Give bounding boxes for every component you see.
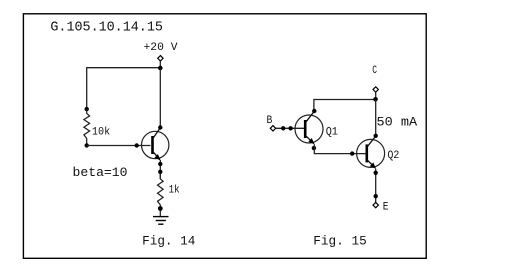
resistor R 10k: [84, 109, 90, 145]
svg-text:C: C: [372, 65, 377, 77]
node Q1 collector pin: [312, 109, 316, 113]
terminal C: [373, 87, 378, 92]
svg-text:Q2: Q2: [388, 150, 400, 162]
terminal B: [270, 126, 275, 131]
ground: [153, 217, 169, 225]
svg-text:Q1: Q1: [326, 127, 338, 139]
wire emitter Fig14: [159, 160, 161, 179]
wire collector vertical Fig14: [159, 68, 161, 128]
node Q1 base pin: [288, 126, 292, 130]
node +20V junction: [158, 66, 163, 71]
node Q2 collector pin: [374, 134, 378, 138]
svg-text:+20 V: +20 V: [144, 42, 179, 54]
border frame: [23, 14, 426, 258]
svg-text:1k: 1k: [169, 184, 180, 196]
node 10k bottom: [85, 143, 89, 147]
wire terminal stub: [159, 61, 161, 68]
svg-text:E: E: [383, 201, 389, 213]
wire C stub: [375, 92, 377, 99]
node C junction: [373, 97, 378, 102]
node base pin Q: [135, 143, 139, 147]
terminal +20V: [158, 56, 163, 61]
transistor Q (Fig14): [142, 128, 169, 161]
svg-text:50 mA: 50 mA: [377, 115, 418, 130]
wire Q1 emitter to Q2 base: [314, 144, 366, 153]
node Q1 emitter pin: [312, 146, 316, 150]
terminal E: [373, 202, 378, 207]
svg-text:G.105.10.14.15: G.105.10.14.15: [50, 21, 162, 36]
svg-text:10k: 10k: [92, 127, 110, 139]
wire right vertical upper: [375, 100, 377, 136]
resistor R 1k: [158, 174, 164, 217]
node Q2 base pin: [350, 151, 354, 155]
node 1k top: [158, 170, 162, 174]
svg-text:Fig. 15: Fig. 15: [313, 233, 366, 248]
node collector pin Q: [158, 125, 162, 129]
wire C horizontal: [314, 100, 376, 112]
svg-text:beta=10: beta=10: [73, 165, 128, 180]
wire B to Q1 base: [276, 127, 305, 129]
node E stub pin: [374, 194, 378, 198]
wire emitter to E: [375, 169, 377, 203]
wire top horizontal: [87, 68, 161, 109]
node 10k top: [85, 107, 89, 111]
wire base Fig14: [87, 145, 151, 147]
svg-text:B: B: [267, 115, 273, 127]
node 1k bottom: [158, 206, 163, 211]
node B stub pin: [281, 126, 285, 130]
svg-text:Fig. 14: Fig. 14: [142, 233, 195, 248]
transistor Q2: [357, 136, 385, 169]
transistor Q1: [295, 111, 323, 144]
node Q2 emitter pin: [374, 171, 378, 175]
node emitter pin Q: [158, 162, 162, 166]
